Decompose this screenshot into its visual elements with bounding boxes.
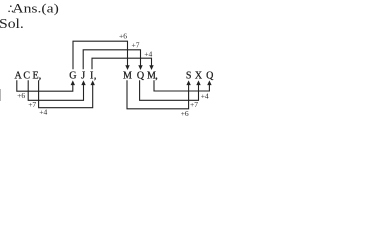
therefore symbol bbox=[8, 5, 13, 12]
wire M to S bottom (+6) bbox=[127, 80, 189, 109]
svg-text:+7: +7 bbox=[132, 40, 140, 49]
wire A to G bottom (+6) bbox=[17, 80, 73, 91]
svg-text:Q: Q bbox=[137, 71, 145, 82]
svg-text:,: , bbox=[155, 71, 158, 82]
svg-text:C: C bbox=[23, 71, 30, 82]
svg-text:+7: +7 bbox=[28, 100, 36, 109]
svg-text:+4: +4 bbox=[39, 107, 47, 116]
svg-text:Sol.: Sol. bbox=[0, 17, 24, 32]
svg-text:S: S bbox=[186, 71, 192, 82]
svg-text:+6: +6 bbox=[17, 91, 25, 100]
faint left edge artifact bbox=[0, 89, 1, 101]
svg-text:M: M bbox=[123, 71, 132, 82]
wire M2 to Q3 bottom (+4) bbox=[154, 80, 209, 91]
svg-text:J: J bbox=[81, 71, 85, 82]
svg-text:Q: Q bbox=[206, 71, 214, 82]
wire I to M2 top (+4) bbox=[92, 58, 152, 69]
svg-text:X: X bbox=[195, 71, 203, 82]
wire G to M top (+6) bbox=[73, 41, 128, 69]
svg-text:+6: +6 bbox=[119, 32, 127, 41]
svg-text:+4: +4 bbox=[201, 91, 209, 100]
svg-text:A: A bbox=[14, 71, 22, 82]
svg-text:+7: +7 bbox=[190, 100, 198, 109]
svg-text:+4: +4 bbox=[144, 49, 152, 58]
svg-text:,: , bbox=[94, 71, 97, 82]
wire E to I bottom (+4) bbox=[39, 80, 93, 107]
wire C to J bottom (+7) bbox=[28, 80, 83, 100]
svg-text:I: I bbox=[90, 71, 93, 82]
wire J to Q top (+7) bbox=[83, 50, 140, 70]
wire Q to X bottom (+7) bbox=[140, 80, 199, 100]
svg-text:,: , bbox=[39, 71, 42, 82]
svg-text:Ans.(a): Ans.(a) bbox=[12, 1, 59, 16]
svg-text:G: G bbox=[69, 71, 76, 82]
svg-text:+6: +6 bbox=[181, 109, 189, 118]
